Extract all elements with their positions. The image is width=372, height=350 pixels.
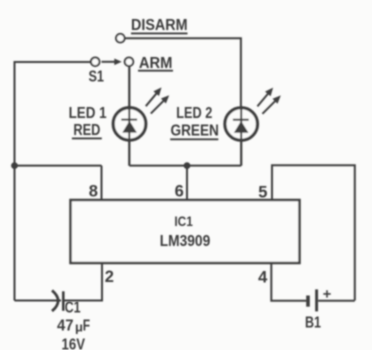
svg-text:IC1: IC1 <box>174 214 193 229</box>
svg-text:LM3909: LM3909 <box>160 233 211 250</box>
svg-text:S1: S1 <box>88 68 104 85</box>
svg-text:6: 6 <box>175 183 184 201</box>
svg-text:B1: B1 <box>305 315 321 332</box>
svg-text:C1: C1 <box>65 300 81 317</box>
svg-text:47: 47 <box>57 318 74 335</box>
svg-text:LED 2: LED 2 <box>176 105 212 122</box>
svg-text:GREEN: GREEN <box>171 123 219 140</box>
svg-text:RED: RED <box>73 122 100 139</box>
svg-text:LED 1: LED 1 <box>69 105 107 122</box>
svg-text:F: F <box>83 318 90 335</box>
svg-text:8: 8 <box>89 183 98 201</box>
svg-text:16V: 16V <box>62 337 86 350</box>
svg-text:ARM: ARM <box>139 55 173 72</box>
svg-text:2: 2 <box>105 268 114 286</box>
svg-text:DISARM: DISARM <box>131 17 188 34</box>
svg-text:5: 5 <box>258 183 267 201</box>
svg-text:4: 4 <box>258 268 268 286</box>
svg-text:μ: μ <box>75 320 83 335</box>
